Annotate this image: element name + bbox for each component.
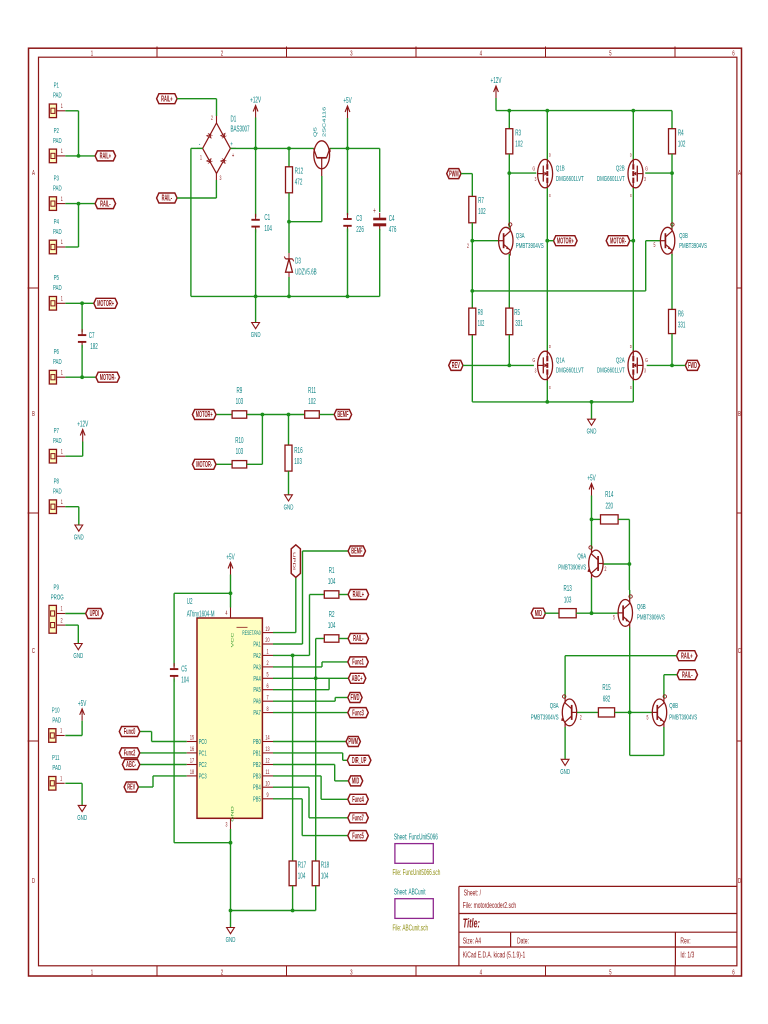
svg-text:P7: P7 bbox=[54, 427, 60, 436]
svg-text:PB1: PB1 bbox=[253, 751, 261, 758]
svg-text:P6: P6 bbox=[54, 348, 60, 357]
svg-text:S: S bbox=[549, 384, 551, 390]
svg-text:R6: R6 bbox=[678, 310, 684, 319]
svg-text:Rev:: Rev: bbox=[680, 937, 690, 946]
svg-text:Q3A: Q3A bbox=[516, 232, 525, 241]
svg-text:R8: R8 bbox=[478, 309, 483, 318]
svg-text:PB4: PB4 bbox=[253, 785, 261, 792]
svg-text:19: 19 bbox=[265, 626, 269, 633]
svg-text:P4: P4 bbox=[54, 218, 60, 227]
svg-text:10: 10 bbox=[265, 781, 269, 788]
svg-text:R13: R13 bbox=[563, 585, 572, 594]
svg-text:102: 102 bbox=[308, 398, 316, 407]
svg-text:GND: GND bbox=[560, 768, 570, 777]
svg-text:PMBT3904VS: PMBT3904VS bbox=[669, 713, 697, 722]
svg-text:PWM: PWM bbox=[348, 738, 358, 747]
svg-text:C: C bbox=[32, 647, 36, 656]
svg-text:GND: GND bbox=[284, 503, 294, 512]
svg-text:P9: P9 bbox=[54, 583, 60, 592]
svg-text:1: 1 bbox=[266, 649, 268, 656]
svg-text:4: 4 bbox=[480, 49, 483, 58]
svg-text:PC1: PC1 bbox=[199, 751, 207, 758]
svg-text:RAIL-: RAIL- bbox=[682, 671, 693, 680]
svg-text:PAD: PAD bbox=[52, 716, 61, 725]
svg-text:Func1: Func1 bbox=[352, 658, 364, 667]
svg-text:102: 102 bbox=[478, 320, 485, 329]
svg-text:PA6: PA6 bbox=[253, 699, 260, 706]
svg-text:GND: GND bbox=[251, 331, 261, 340]
svg-text:G: G bbox=[532, 165, 535, 172]
svg-text:ATtiny1604-M: ATtiny1604-M bbox=[187, 610, 215, 619]
svg-text:C4: C4 bbox=[389, 215, 395, 224]
svg-text:103: 103 bbox=[236, 398, 244, 407]
svg-text:R5: R5 bbox=[514, 309, 520, 318]
svg-text:+12V: +12V bbox=[250, 96, 261, 105]
svg-text:11: 11 bbox=[266, 769, 270, 776]
svg-text:G: G bbox=[645, 165, 648, 172]
svg-text:Q8B: Q8B bbox=[669, 702, 678, 711]
svg-text:RESET/PA0: RESET/PA0 bbox=[242, 630, 260, 638]
svg-text:B: B bbox=[32, 410, 35, 419]
svg-text:1: 1 bbox=[60, 776, 62, 783]
svg-text:2: 2 bbox=[60, 617, 62, 624]
svg-text:2: 2 bbox=[266, 660, 268, 667]
svg-text:RAIL+: RAIL+ bbox=[681, 652, 693, 661]
svg-text:1: 1 bbox=[61, 296, 63, 303]
svg-text:PAD: PAD bbox=[53, 487, 62, 496]
svg-text:RAIL-: RAIL- bbox=[100, 200, 111, 209]
svg-text:Sheet: ABCunit: Sheet: ABCunit bbox=[394, 889, 426, 897]
svg-text:S: S bbox=[549, 192, 551, 198]
svg-text:R17: R17 bbox=[298, 861, 307, 870]
svg-text:+5V: +5V bbox=[78, 700, 87, 709]
svg-text:PAD: PAD bbox=[53, 284, 62, 293]
svg-text:5: 5 bbox=[613, 615, 615, 622]
svg-text:2: 2 bbox=[580, 715, 582, 722]
svg-text:Q8A: Q8A bbox=[550, 702, 559, 711]
svg-text:UDZV5.6B: UDZV5.6B bbox=[295, 269, 317, 278]
svg-text:8: 8 bbox=[266, 706, 268, 713]
svg-text:PWM: PWM bbox=[449, 170, 459, 179]
svg-text:C5: C5 bbox=[181, 665, 187, 674]
svg-text:File: motordecoder2.sch: File: motordecoder2.sch bbox=[463, 902, 516, 911]
svg-text:102: 102 bbox=[515, 140, 523, 149]
svg-text:PB0: PB0 bbox=[253, 739, 261, 746]
svg-text:3: 3 bbox=[226, 822, 228, 829]
svg-text:+12V: +12V bbox=[491, 77, 502, 86]
svg-text:182: 182 bbox=[90, 343, 98, 352]
svg-text:1: 1 bbox=[61, 449, 63, 456]
svg-text:Q1B: Q1B bbox=[556, 164, 565, 173]
svg-text:103: 103 bbox=[564, 596, 572, 605]
svg-text:Func5: Func5 bbox=[352, 832, 364, 841]
svg-text:File: FuncUnit5066.sch: File: FuncUnit5066.sch bbox=[393, 869, 441, 877]
svg-text:MOTOR-: MOTOR- bbox=[100, 374, 116, 383]
svg-text:R3: R3 bbox=[515, 129, 521, 138]
svg-text:104: 104 bbox=[328, 622, 336, 631]
svg-text:R11: R11 bbox=[308, 387, 316, 396]
svg-text:MID: MID bbox=[535, 610, 543, 619]
svg-text:PMBT3906VS: PMBT3906VS bbox=[558, 563, 586, 572]
svg-text:MOTOR-: MOTOR- bbox=[610, 237, 626, 246]
svg-text:D: D bbox=[738, 877, 742, 886]
svg-text:20: 20 bbox=[265, 637, 269, 644]
svg-text:RAIL+: RAIL+ bbox=[161, 95, 173, 104]
svg-text:GND: GND bbox=[74, 533, 84, 542]
svg-text:ABC+: ABC+ bbox=[352, 675, 363, 684]
svg-text:GND: GND bbox=[587, 428, 597, 437]
svg-text:P10: P10 bbox=[52, 706, 60, 715]
svg-text:UPDI: UPDI bbox=[90, 610, 100, 619]
svg-text:PB5: PB5 bbox=[253, 796, 261, 803]
svg-text:2: 2 bbox=[467, 243, 469, 250]
svg-text:C1: C1 bbox=[264, 214, 270, 223]
svg-text:U2: U2 bbox=[187, 598, 193, 607]
svg-text:103: 103 bbox=[294, 458, 302, 467]
svg-text:3: 3 bbox=[350, 49, 353, 58]
svg-text:P3: P3 bbox=[54, 174, 60, 183]
svg-text:+5V: +5V bbox=[587, 474, 596, 483]
svg-text:15: 15 bbox=[190, 735, 194, 742]
svg-text:PC0: PC0 bbox=[199, 739, 207, 746]
svg-text:MID: MID bbox=[352, 777, 360, 786]
svg-text:+5V: +5V bbox=[343, 97, 352, 106]
svg-text:R14: R14 bbox=[605, 491, 614, 500]
svg-text:KiCad E.D.A. kicad (5.1.9)-1: KiCad E.D.A. kicad (5.1.9)-1 bbox=[463, 951, 526, 960]
svg-text:Func2: Func2 bbox=[124, 749, 136, 758]
svg-text:Q3B: Q3B bbox=[679, 232, 688, 241]
svg-text:1: 1 bbox=[200, 155, 202, 162]
svg-text:DMG6601LVT: DMG6601LVT bbox=[556, 175, 584, 184]
svg-text:UPDI: UPDI bbox=[292, 552, 296, 571]
svg-text:PC3: PC3 bbox=[199, 774, 207, 781]
svg-text:Id: 1/3: Id: 1/3 bbox=[680, 951, 694, 960]
svg-text:472: 472 bbox=[295, 178, 303, 187]
svg-text:PMBT3904VS: PMBT3904VS bbox=[516, 242, 544, 251]
svg-text:RAIL-: RAIL- bbox=[162, 194, 173, 203]
svg-text:FWD: FWD bbox=[688, 362, 697, 371]
svg-text:Func3: Func3 bbox=[352, 709, 364, 718]
svg-text:PAD: PAD bbox=[53, 358, 62, 367]
svg-text:+5V: +5V bbox=[226, 553, 235, 562]
svg-text:Func7: Func7 bbox=[352, 814, 364, 823]
svg-text:PA7: PA7 bbox=[253, 710, 260, 717]
svg-text:Q6A: Q6A bbox=[577, 552, 586, 561]
svg-text:1: 1 bbox=[61, 370, 63, 377]
svg-text:R9: R9 bbox=[237, 387, 243, 396]
svg-text:D: D bbox=[630, 151, 632, 157]
svg-text:DMG6601LVT: DMG6601LVT bbox=[597, 175, 625, 184]
svg-text:17: 17 bbox=[190, 758, 194, 765]
svg-text:Sheet: FuncUnit5066: Sheet: FuncUnit5066 bbox=[394, 833, 438, 841]
svg-text:5: 5 bbox=[609, 49, 612, 58]
svg-text:C: C bbox=[738, 647, 742, 656]
svg-text:BEMF: BEMF bbox=[337, 411, 348, 420]
svg-text:7: 7 bbox=[266, 695, 268, 702]
svg-text:MOTOR-: MOTOR- bbox=[196, 461, 212, 470]
svg-text:ABC-: ABC- bbox=[126, 761, 136, 770]
svg-text:S: S bbox=[630, 192, 632, 198]
svg-text:13: 13 bbox=[265, 746, 269, 753]
svg-text:18: 18 bbox=[190, 769, 194, 776]
svg-text:2: 2 bbox=[221, 49, 224, 58]
svg-text:PROG: PROG bbox=[51, 593, 64, 602]
svg-text:R7: R7 bbox=[478, 197, 484, 206]
svg-text:D3: D3 bbox=[295, 258, 301, 267]
svg-text:220: 220 bbox=[606, 502, 614, 511]
svg-text:2: 2 bbox=[221, 968, 224, 977]
svg-text:14: 14 bbox=[265, 735, 269, 742]
svg-text:1: 1 bbox=[61, 499, 63, 506]
svg-text:PA5: PA5 bbox=[253, 687, 260, 694]
svg-text:BEMF: BEMF bbox=[351, 547, 362, 556]
svg-text:PAD: PAD bbox=[53, 92, 62, 101]
svg-text:1: 1 bbox=[61, 239, 63, 246]
svg-text:Q2B: Q2B bbox=[616, 164, 625, 173]
svg-text:R15: R15 bbox=[602, 684, 611, 693]
svg-text:Title:: Title: bbox=[463, 918, 480, 931]
svg-text:GND: GND bbox=[231, 806, 235, 822]
svg-text:G: G bbox=[645, 357, 648, 364]
svg-text:1: 1 bbox=[60, 606, 62, 613]
svg-text:C7: C7 bbox=[89, 332, 95, 341]
svg-text:MOTOR+: MOTOR+ bbox=[557, 237, 574, 246]
svg-text:Q1A: Q1A bbox=[556, 356, 565, 365]
svg-text:FWD: FWD bbox=[350, 694, 359, 703]
svg-text:P5: P5 bbox=[54, 274, 60, 283]
svg-text:5: 5 bbox=[654, 242, 656, 249]
svg-text:Func0: Func0 bbox=[124, 728, 136, 737]
svg-text:Q5: Q5 bbox=[314, 126, 318, 137]
svg-text:PMBT3904VS: PMBT3904VS bbox=[679, 242, 707, 251]
svg-text:1: 1 bbox=[61, 103, 63, 110]
svg-text:682: 682 bbox=[603, 695, 611, 704]
svg-text:PAD: PAD bbox=[53, 437, 62, 446]
svg-text:D: D bbox=[549, 343, 551, 349]
svg-text:Q6B: Q6B bbox=[637, 603, 646, 612]
svg-text:PMBT3906VS: PMBT3906VS bbox=[637, 613, 665, 622]
svg-text:331: 331 bbox=[515, 320, 523, 329]
svg-text:DMG6601LVT: DMG6601LVT bbox=[556, 366, 584, 375]
svg-text:1: 1 bbox=[60, 728, 62, 735]
svg-text:9: 9 bbox=[266, 792, 268, 799]
svg-text:104: 104 bbox=[328, 578, 336, 587]
svg-text:+: + bbox=[373, 207, 376, 216]
svg-text:16: 16 bbox=[190, 746, 194, 753]
svg-text:5: 5 bbox=[647, 715, 649, 722]
svg-text:PAD: PAD bbox=[53, 228, 62, 237]
svg-text:P11: P11 bbox=[52, 754, 60, 763]
svg-text:R10: R10 bbox=[235, 437, 244, 446]
svg-text:GND: GND bbox=[77, 814, 87, 823]
svg-text:2: 2 bbox=[605, 566, 607, 573]
svg-text:RAIL+: RAIL+ bbox=[100, 152, 112, 161]
svg-text:PA3: PA3 bbox=[253, 665, 260, 672]
svg-text:Size: A4: Size: A4 bbox=[463, 937, 481, 946]
svg-text:1: 1 bbox=[91, 49, 94, 58]
svg-text:D: D bbox=[549, 151, 551, 157]
svg-text:PAD: PAD bbox=[52, 764, 61, 773]
svg-text:RAIL-: RAIL- bbox=[353, 635, 364, 644]
svg-text:REV: REV bbox=[452, 362, 461, 371]
svg-text:R1: R1 bbox=[329, 567, 335, 576]
svg-text:D: D bbox=[630, 343, 632, 349]
svg-text:2: 2 bbox=[211, 115, 213, 122]
svg-text:104: 104 bbox=[321, 872, 329, 881]
svg-text:File: ABCunit.sch: File: ABCunit.sch bbox=[393, 924, 429, 932]
svg-text:6: 6 bbox=[266, 683, 268, 690]
svg-text:Func4: Func4 bbox=[352, 796, 364, 805]
svg-text:476: 476 bbox=[389, 226, 397, 235]
svg-text:DIR_UP: DIR_UP bbox=[352, 757, 366, 766]
svg-text:RAIL+: RAIL+ bbox=[353, 591, 365, 600]
svg-text:BAS3007: BAS3007 bbox=[231, 125, 250, 134]
svg-text:2SC4116: 2SC4116 bbox=[323, 106, 327, 137]
svg-text:GND: GND bbox=[226, 936, 236, 945]
svg-text:PMBT3904VS: PMBT3904VS bbox=[531, 713, 559, 722]
svg-text:Q2A: Q2A bbox=[616, 356, 625, 365]
svg-text:4: 4 bbox=[480, 968, 483, 977]
svg-text:C3: C3 bbox=[356, 215, 362, 224]
svg-text:VCC: VCC bbox=[231, 633, 235, 648]
svg-text:P2: P2 bbox=[54, 127, 60, 136]
svg-text:R18: R18 bbox=[321, 861, 330, 870]
svg-text:B: B bbox=[738, 410, 741, 419]
svg-text:P8: P8 bbox=[54, 477, 60, 486]
svg-text:R4: R4 bbox=[678, 129, 684, 138]
svg-text:104: 104 bbox=[181, 676, 189, 685]
svg-text:102: 102 bbox=[678, 140, 686, 149]
svg-text:6: 6 bbox=[732, 49, 735, 58]
svg-text:+12V: +12V bbox=[77, 420, 88, 429]
svg-text:R12: R12 bbox=[295, 167, 304, 176]
svg-text:102: 102 bbox=[478, 208, 486, 217]
svg-text:GND: GND bbox=[73, 652, 83, 661]
svg-text:MOTOR+: MOTOR+ bbox=[196, 411, 213, 420]
svg-text:12: 12 bbox=[265, 758, 269, 765]
svg-text:226: 226 bbox=[356, 226, 364, 235]
svg-text:PA2: PA2 bbox=[253, 653, 260, 660]
svg-text:PAD: PAD bbox=[53, 137, 62, 146]
svg-text:5: 5 bbox=[609, 968, 612, 977]
svg-text:104: 104 bbox=[264, 225, 272, 234]
svg-text:P1: P1 bbox=[54, 82, 60, 91]
svg-text:R2: R2 bbox=[329, 611, 335, 620]
svg-text:6: 6 bbox=[732, 968, 735, 977]
svg-text:PA1: PA1 bbox=[253, 642, 260, 649]
svg-text:103: 103 bbox=[236, 448, 244, 457]
svg-text:D1: D1 bbox=[231, 115, 237, 124]
svg-text:4: 4 bbox=[226, 610, 228, 617]
svg-text:Date:: Date: bbox=[517, 937, 529, 946]
svg-text:G: G bbox=[532, 357, 535, 364]
svg-text:PAD: PAD bbox=[53, 184, 62, 193]
svg-text:PB2: PB2 bbox=[253, 762, 261, 769]
svg-text:1: 1 bbox=[61, 148, 63, 155]
svg-text:R16: R16 bbox=[294, 447, 303, 456]
svg-text:1: 1 bbox=[91, 968, 94, 977]
svg-text:3: 3 bbox=[350, 968, 353, 977]
svg-text:MOTOR+: MOTOR+ bbox=[97, 300, 114, 309]
svg-text:1: 1 bbox=[61, 196, 63, 203]
svg-text:REV: REV bbox=[127, 783, 136, 792]
svg-text:104: 104 bbox=[298, 872, 306, 881]
svg-text:S: S bbox=[630, 384, 632, 390]
svg-text:PB3: PB3 bbox=[253, 774, 261, 781]
svg-text:3: 3 bbox=[220, 175, 222, 182]
svg-text:DMG6601LVT: DMG6601LVT bbox=[597, 366, 625, 375]
svg-text:5: 5 bbox=[266, 672, 268, 679]
svg-text:Sheet: /: Sheet: / bbox=[464, 889, 481, 898]
svg-text:331: 331 bbox=[678, 321, 686, 330]
svg-text:PC2: PC2 bbox=[199, 762, 207, 769]
svg-text:D: D bbox=[32, 877, 36, 886]
svg-text:PA4: PA4 bbox=[253, 676, 261, 683]
